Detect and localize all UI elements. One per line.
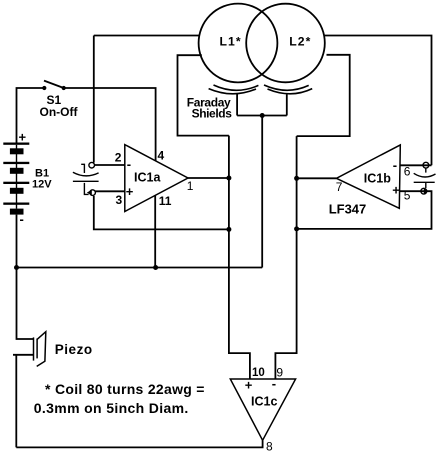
svg-text:2: 2: [115, 151, 122, 165]
op-amp IC1a: [125, 145, 188, 212]
wire switch to IC1a pin4: [64, 88, 156, 161]
op-amp IC1c: [230, 379, 295, 440]
arrowhead on left sensor lower terminal: [87, 190, 92, 196]
svg-text:-: -: [272, 376, 276, 391]
wire battery internal: [16, 145, 18, 209]
svg-text:L2*: L2*: [289, 35, 311, 49]
wire vertical left column to sensor capacitor: [93, 36, 95, 163]
svg-text:3: 3: [116, 193, 123, 207]
arrowhead on right sensor lower terminal: [424, 188, 429, 194]
node shield junction: [260, 113, 265, 118]
coil L2: [246, 4, 325, 83]
svg-text:-: -: [20, 212, 24, 227]
svg-text:9: 9: [276, 365, 283, 379]
wire IC1a pin11 down to rail: [154, 195, 156, 267]
svg-text:8: 8: [266, 440, 273, 454]
wire IC1a pin2 input: [94, 164, 125, 166]
svg-text:IC1a: IC1a: [134, 170, 161, 184]
svg-text:* Coil 80 turns 22awg =: * Coil 80 turns 22awg =: [45, 381, 205, 397]
svg-text:11: 11: [159, 194, 172, 208]
svg-text:1: 1: [187, 179, 194, 193]
svg-text:12V: 12V: [32, 179, 52, 191]
svg-text:+: +: [126, 184, 134, 199]
wire shield junction down to ground rail: [261, 116, 263, 268]
node battery-rail junction: [14, 265, 19, 270]
svg-text:On-Off: On-Off: [40, 105, 79, 119]
svg-text:0.3mm on 5inch Diam.: 0.3mm on 5inch Diam.: [34, 400, 189, 416]
faraday shield arc under L1 lower: [209, 89, 256, 94]
op-amp IC1b: [336, 145, 400, 208]
svg-text:Shields: Shields: [192, 107, 233, 121]
wire IC1b pin5: [400, 190, 425, 192]
svg-text:-: -: [393, 158, 397, 173]
faraday shield arc under L2 lower: [268, 89, 313, 94]
svg-text:5: 5: [404, 189, 411, 203]
wire IC1a output: [188, 177, 229, 179]
faraday shield arc under L2: [264, 85, 309, 90]
svg-text:-: -: [127, 157, 131, 172]
wire IC1a pin3 input: [95, 190, 125, 192]
faraday shield arc under L1: [214, 85, 259, 90]
node IC1a output junction: [226, 176, 231, 181]
wire piezo bottom lead: [13, 354, 33, 356]
node IC1b output junction: [294, 176, 299, 181]
battery B1: [3, 143, 29, 215]
svg-text:L1*: L1*: [220, 35, 242, 49]
svg-text:4: 4: [158, 148, 165, 162]
svg-text:LF347: LF347: [329, 201, 367, 216]
wire column IC1a output down to IC1c pin10: [229, 136, 250, 379]
bottom rail to IC1c pin8: [16, 440, 262, 447]
svg-text:10: 10: [252, 367, 265, 379]
wire battery top to switch: [17, 88, 45, 144]
wire IC1b output to junction: [297, 177, 337, 179]
node right column lower junction: [294, 226, 299, 231]
node pin11-rail junction: [153, 265, 158, 270]
ground rail (bottom horizontal): [17, 267, 263, 269]
wire sensor cap bottom to lower horizontal: [94, 196, 229, 229]
svg-text:7: 7: [336, 180, 343, 194]
wire piezo to bottom rail riser: [15, 355, 17, 448]
wire IC1b pin6: [400, 164, 432, 166]
wire top-left horizontal to coil L1: [94, 35, 200, 37]
wire L1 to left loop down to IC1a output: [178, 55, 229, 135]
sensor capacitor left: terminal circles and plates: [73, 162, 99, 195]
wire battery bottom to ground rail: [16, 215, 18, 268]
wire column IC1b output down to IC1c pin9: [275, 136, 296, 379]
wire shield bracket: [237, 94, 287, 116]
sensor capacitor right: terminal circles and plates: [414, 162, 436, 194]
switch S1: [42, 81, 66, 91]
coil L1: [199, 4, 278, 83]
wire rail down to piezo top lead: [17, 268, 34, 340]
svg-text:IC1c: IC1c: [251, 394, 277, 408]
wire L2 edge to right loop: [297, 55, 350, 136]
wire pin5 feedback loop: [297, 191, 432, 229]
piezo transducer: [34, 332, 46, 367]
svg-text:Piezo: Piezo: [55, 342, 93, 357]
svg-text:+: +: [19, 130, 27, 145]
node left column lower junction: [226, 227, 231, 232]
svg-text:IC1b: IC1b: [364, 172, 391, 186]
wire coil L2 to top-right corner: [324, 36, 431, 166]
svg-text:+: +: [245, 378, 253, 393]
svg-text:+: +: [392, 183, 400, 198]
svg-text:6: 6: [404, 164, 411, 178]
